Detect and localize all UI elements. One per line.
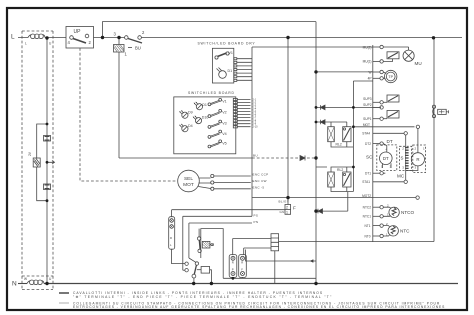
svg-text:D9: D9 xyxy=(188,110,193,114)
svg-text:R: R xyxy=(170,236,172,240)
svg-text:V3: V3 xyxy=(222,121,226,125)
svg-text:D1: D1 xyxy=(202,103,207,107)
svg-text:ENC CCP: ENC CCP xyxy=(253,173,269,177)
svg-text:NT0: NT0 xyxy=(364,234,370,238)
svg-text:S: S xyxy=(401,156,404,161)
svg-text:GN: GN xyxy=(280,210,285,214)
svg-text:MOT2: MOT2 xyxy=(362,194,371,198)
svg-text:BU: BU xyxy=(253,154,258,158)
svg-text:UP: UP xyxy=(74,29,82,35)
svg-text:D1: D1 xyxy=(228,69,233,73)
svg-text:V1: V1 xyxy=(222,99,226,103)
svg-text:BU: BU xyxy=(135,46,141,51)
svg-text:SUP1: SUP1 xyxy=(363,117,372,121)
svg-text:W: W xyxy=(24,277,27,281)
svg-text:PN: PN xyxy=(254,220,259,224)
svg-text:DT2: DT2 xyxy=(365,142,371,146)
svg-text:NTC1: NTC1 xyxy=(363,215,372,219)
svg-text:NTC2: NTC2 xyxy=(363,206,372,210)
svg-text:SC: SC xyxy=(366,154,373,159)
svg-text:MU: MU xyxy=(415,61,422,66)
svg-text:R: R xyxy=(232,261,234,265)
svg-text:DT1: DT1 xyxy=(365,172,371,176)
svg-text:NTCO: NTCO xyxy=(401,210,414,215)
svg-text:R: R xyxy=(241,261,243,265)
svg-text:2: 2 xyxy=(286,205,288,209)
svg-text:RL2: RL2 xyxy=(336,143,342,147)
svg-text:MOT: MOT xyxy=(183,182,194,188)
svg-text:PS: PS xyxy=(254,213,259,217)
svg-text:BL/GY: BL/GY xyxy=(279,199,290,203)
svg-text:SUP3: SUP3 xyxy=(363,97,372,101)
svg-text:SUP2: SUP2 xyxy=(363,103,372,107)
svg-text:SEL: SEL xyxy=(184,176,193,182)
svg-text:NTC: NTC xyxy=(400,228,410,233)
svg-text:V2: V2 xyxy=(222,111,226,115)
svg-text:SWITCH/LED BOARD: SWITCH/LED BOARD xyxy=(188,91,235,95)
svg-text:L: L xyxy=(25,42,27,46)
svg-text:2-10: 2-10 xyxy=(253,126,259,129)
svg-text:V5: V5 xyxy=(222,142,226,146)
svg-text:MU(2): MU(2) xyxy=(363,45,372,49)
svg-text:F: F xyxy=(241,268,243,272)
svg-text:ENC CW: ENC CW xyxy=(253,179,267,183)
svg-text:DT: DT xyxy=(383,156,389,161)
svg-text:R: R xyxy=(416,157,419,162)
svg-text:V1: V1 xyxy=(229,51,233,55)
svg-text:STA1: STA1 xyxy=(362,180,370,184)
svg-text:F: F xyxy=(293,206,296,211)
svg-text:L: L xyxy=(11,34,15,41)
svg-text:D4: D4 xyxy=(188,124,193,128)
svg-text:MU(1): MU(1) xyxy=(363,60,372,64)
svg-text:1: 1 xyxy=(286,211,288,215)
svg-text:DT: DT xyxy=(387,139,393,144)
svg-text:N: N xyxy=(12,281,17,288)
svg-text:TP: TP xyxy=(388,75,393,79)
svg-text:P: P xyxy=(232,268,234,272)
svg-text:RL2: RL2 xyxy=(337,168,343,172)
svg-text:V4: V4 xyxy=(222,132,226,136)
svg-text:"⊕" TERMINALE "T" - END PIECE: "⊕" TERMINALE "T" - END PIECE "T" - PIEC… xyxy=(73,295,333,299)
svg-text:D10: D10 xyxy=(202,116,209,120)
svg-text:MC: MC xyxy=(397,174,405,179)
svg-text:STA4: STA4 xyxy=(362,132,370,136)
svg-text:NT1: NT1 xyxy=(364,224,370,228)
svg-text:MOT: MOT xyxy=(363,123,370,127)
svg-text:W: W xyxy=(368,70,371,74)
svg-text:ENC -5: ENC -5 xyxy=(253,185,265,189)
svg-text:4P: 4P xyxy=(368,77,372,81)
svg-text:ENTROCONTAGES - VERBINDUNGEN A: ENTROCONTAGES - VERBINDUNGEN AUF GEDRUCK… xyxy=(73,305,445,309)
svg-text:SWITCH/LED BOARD DRY: SWITCH/LED BOARD DRY xyxy=(198,41,256,45)
